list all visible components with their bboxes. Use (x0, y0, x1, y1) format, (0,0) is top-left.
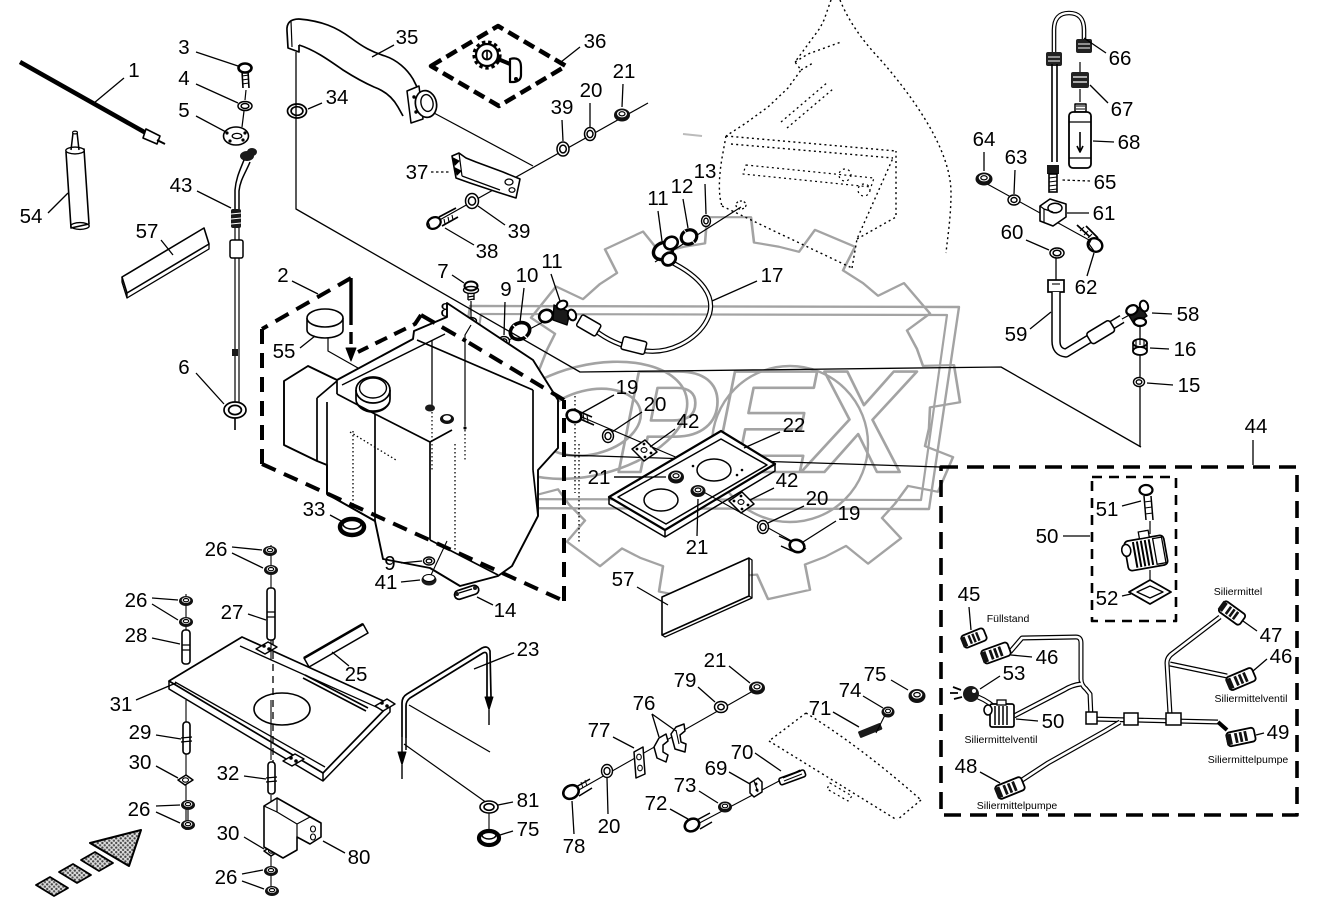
column B line (270, 545, 272, 660)
svg-text:21: 21 (613, 60, 636, 83)
washer 30 B (264, 846, 279, 856)
svg-text:70: 70 (731, 741, 754, 764)
leader line (697, 499, 698, 536)
leader line (196, 116, 226, 132)
svg-text:57: 57 (136, 220, 159, 243)
leader line (622, 84, 623, 107)
svg-text:26: 26 (215, 866, 238, 889)
svg-text:60: 60 (1001, 221, 1024, 244)
washer 30 (178, 775, 193, 785)
leader line (232, 553, 263, 568)
svg-text:74: 74 (839, 679, 862, 702)
leader line (803, 521, 836, 542)
axis 9-11 (492, 312, 562, 349)
nut 26 B2 (264, 565, 278, 575)
leader line (1011, 655, 1032, 657)
leader line (614, 476, 666, 478)
svg-text:39: 39 (508, 220, 531, 243)
watermark gear (504, 217, 960, 600)
svg-text:54: 54 (20, 205, 43, 228)
part 36 small tab (498, 59, 510, 64)
leader line (156, 735, 181, 739)
svg-text:33: 33 (303, 498, 326, 521)
ring 6 (224, 402, 246, 418)
nut 26 A1 (179, 596, 193, 606)
axis 42-19 right (700, 490, 806, 549)
washer 20 (585, 128, 596, 141)
harness wire 46-junction (1010, 637, 1091, 717)
cap 55 leader to neck (328, 338, 358, 368)
leader line (589, 103, 591, 127)
nut 75 right (909, 689, 926, 703)
leader line (196, 373, 224, 404)
alignment line tray to box 44 (565, 455, 941, 467)
machine tank (dotted) (726, 136, 896, 151)
nut 75 (479, 831, 499, 845)
leader line (196, 52, 238, 66)
pin 27 (267, 588, 275, 640)
svg-text:29: 29 (129, 721, 152, 744)
washer 8 (466, 318, 477, 325)
leader line (152, 598, 178, 600)
ring 13 (702, 216, 711, 227)
svg-text:19: 19 (616, 376, 639, 399)
bolt 3 (239, 64, 252, 73)
svg-text:42: 42 (677, 410, 700, 433)
svg-text:20: 20 (598, 815, 621, 838)
seal 52 (1149, 570, 1151, 581)
harness wire to 47 (1167, 617, 1220, 714)
pin 28 (182, 630, 190, 664)
cap 55 (307, 318, 343, 338)
svg-text:50: 50 (1042, 710, 1065, 733)
leader line (612, 412, 642, 432)
leader line (652, 714, 659, 737)
svg-text:Siliermittelventil: Siliermittelventil (1215, 693, 1288, 705)
axis frame to 81 (404, 744, 487, 803)
leader line (712, 281, 757, 301)
leader line (244, 776, 266, 779)
column A line (185, 594, 187, 664)
svg-text:10: 10 (516, 264, 539, 287)
svg-text:21: 21 (588, 466, 611, 489)
nut 26 A3 (181, 800, 195, 810)
svg-text:77: 77 (588, 719, 611, 742)
svg-text:11: 11 (647, 187, 668, 210)
part 57 panel right (662, 558, 749, 635)
bolt 78 (561, 783, 581, 802)
svg-text:9: 9 (500, 278, 511, 301)
nut 21 right (691, 485, 706, 497)
plate 31 top tab (256, 642, 277, 654)
leader line (729, 666, 750, 683)
pin 14 (453, 584, 480, 600)
leader line (1243, 621, 1257, 631)
bolt 7 (465, 282, 478, 291)
fitting 58 (1139, 325, 1141, 447)
ring 60 (1050, 248, 1064, 258)
svg-text:66: 66 (1109, 47, 1132, 70)
part 36 knob (476, 44, 498, 66)
svg-text:49: 49 (1267, 721, 1290, 744)
tank top mounting nuts (425, 405, 435, 412)
svg-text:46: 46 (1270, 645, 1293, 668)
leader line (983, 152, 985, 171)
connector 48 (993, 776, 1025, 800)
svg-text:13: 13 (694, 160, 717, 183)
leader line (1016, 719, 1038, 721)
frame 23 panel edge (409, 705, 490, 752)
svg-text:Siliermittelpumpe: Siliermittelpumpe (977, 800, 1058, 812)
leader line (698, 687, 715, 702)
leader line (1084, 38, 1106, 53)
leader line (729, 772, 750, 784)
svg-text:67: 67 (1111, 98, 1134, 121)
leader line (833, 712, 859, 727)
leader line (401, 561, 422, 563)
ring 34 (288, 104, 307, 118)
svg-text:46: 46 (1036, 646, 1059, 669)
part 57 strip left (122, 228, 209, 293)
svg-text:15: 15 (1178, 374, 1201, 397)
leader line (1252, 440, 1254, 465)
svg-text:26: 26 (125, 589, 148, 612)
svg-text:50: 50 (1036, 525, 1059, 548)
svg-text:78: 78 (563, 835, 586, 858)
leader line (504, 302, 505, 335)
tank silhouette (284, 303, 558, 586)
leader line (156, 766, 178, 778)
leader line (1147, 383, 1173, 385)
svg-text:38: 38 (476, 240, 499, 263)
svg-text:21: 21 (686, 536, 709, 559)
washer 20 right (758, 521, 769, 534)
leader line (658, 211, 662, 241)
washer 39 lower (466, 194, 479, 209)
leader line (980, 772, 1000, 783)
leader line (613, 737, 634, 748)
ring 63 (1008, 195, 1020, 205)
leader line (156, 812, 180, 823)
part 43 white collar (230, 240, 243, 258)
leader line (292, 281, 318, 294)
long installation line pipe-tank-breather (296, 52, 1141, 447)
dashed box 44 (941, 467, 1297, 815)
pipe 66 nuts (1046, 52, 1062, 66)
frame 23 arrow tips (485, 697, 493, 710)
leader line (607, 778, 608, 814)
svg-text:12: 12 (671, 175, 694, 198)
leader line (744, 432, 780, 448)
leader line (699, 791, 718, 803)
leader line (300, 336, 315, 348)
svg-text:43: 43 (170, 174, 193, 197)
axis line 11-13 (655, 207, 741, 262)
leader line (562, 120, 563, 141)
leader line (1063, 535, 1090, 537)
pin 32 (268, 762, 275, 794)
leader line (670, 809, 688, 819)
nut 26 A2 (179, 617, 193, 627)
plate 42 (632, 440, 657, 461)
leader line (980, 676, 1000, 689)
leader line (452, 275, 464, 283)
svg-text:26: 26 (205, 538, 228, 561)
tank internal edges (317, 381, 337, 461)
part 54 cartridge tube (66, 149, 89, 228)
nut 26 B3 (264, 866, 278, 876)
harness wire to 46 right (1170, 664, 1227, 676)
bolt 19 (565, 408, 583, 424)
bolt 51 (1140, 485, 1153, 495)
svg-text:68: 68 (1118, 131, 1141, 154)
fitting 16 (1133, 339, 1147, 347)
leader line (572, 801, 574, 834)
part 1 cable tie (20, 62, 146, 133)
axis line 38-21 (436, 103, 648, 222)
dashed box 2 (262, 278, 351, 329)
leader line (152, 604, 178, 620)
leader line (1090, 85, 1108, 103)
svg-text:16: 16 (1174, 338, 1197, 361)
machine body outline (dotted) (840, 0, 951, 253)
leader line (551, 274, 560, 301)
svg-text:48: 48 (955, 755, 978, 778)
leader line (498, 802, 513, 805)
svg-text:58: 58 (1177, 303, 1200, 326)
nut 64 (976, 173, 993, 186)
leader line (474, 653, 514, 669)
leader line (1067, 212, 1089, 214)
svg-text:5: 5 (178, 99, 189, 122)
leader line (1026, 240, 1049, 250)
svg-text:Siliermittelpumpe: Siliermittelpumpe (1208, 754, 1289, 766)
leader line (48, 193, 68, 213)
svg-text:Siliermittel: Siliermittel (1214, 586, 1262, 598)
leader line (156, 805, 180, 806)
strip 25 (304, 624, 368, 667)
leader line (152, 638, 180, 644)
fitting 12 (679, 227, 700, 247)
svg-text:63: 63 (1005, 146, 1028, 169)
svg-text:79: 79 (674, 669, 697, 692)
bolt 38 (425, 215, 443, 231)
leader line (652, 714, 676, 731)
leader line (768, 506, 804, 523)
harness trunk (1091, 719, 1218, 722)
hose 59 (1055, 258, 1057, 281)
part 43 rod (235, 228, 239, 240)
hose 59 sleeve (1086, 320, 1116, 345)
machine tank screw marks (dotted) (839, 169, 851, 181)
svg-text:41: 41 (375, 571, 398, 594)
leader line (455, 315, 465, 319)
watermark card inner border (455, 314, 947, 500)
tank notch vertical (431, 340, 433, 406)
svg-text:23: 23 (517, 638, 540, 661)
leader flange to bracket 37 (434, 113, 533, 166)
leader line (1087, 253, 1094, 276)
washer 8 leader over tank (465, 325, 471, 426)
elbow 11 (537, 308, 555, 325)
pin 71/74 (858, 723, 883, 738)
svg-text:21: 21 (704, 649, 727, 672)
leader line (1256, 733, 1264, 735)
plug 53 (963, 686, 979, 702)
connector 47 (1217, 600, 1246, 626)
tray 22 (609, 431, 775, 530)
tank dotted seams (350, 432, 396, 460)
plate 31 hole (254, 693, 310, 725)
svg-text:75: 75 (864, 663, 887, 686)
leader line (755, 753, 781, 771)
bolt 62 (1085, 236, 1104, 255)
leader line (500, 831, 513, 835)
svg-text:76: 76 (633, 692, 656, 715)
leader line (1030, 312, 1051, 329)
svg-text:47: 47 (1260, 624, 1283, 647)
leader line (637, 587, 668, 605)
washer 39 upper (557, 142, 569, 156)
leader line (308, 103, 322, 109)
svg-text:20: 20 (644, 393, 667, 416)
svg-text:31: 31 (110, 693, 133, 716)
leader line (477, 597, 493, 605)
svg-text:30: 30 (129, 751, 152, 774)
washer 20 bottom (602, 765, 613, 778)
watermark letters PEX (616, 340, 917, 504)
tray hole B (644, 489, 678, 511)
box 2 vertical with arrow (349, 278, 352, 325)
svg-text:14: 14 (494, 599, 517, 622)
connector 49 stub (1218, 722, 1227, 730)
svg-text:65: 65 (1094, 171, 1117, 194)
fitting 11 (650, 239, 675, 263)
gray mark (683, 134, 702, 136)
leader line (1253, 659, 1267, 671)
ring 79 (715, 702, 728, 713)
leader line (197, 191, 231, 208)
svg-text:52: 52 (1096, 587, 1119, 610)
leader line (332, 652, 349, 666)
leader line (705, 184, 706, 214)
nut 21 bottom (749, 682, 765, 695)
svg-text:62: 62 (1075, 276, 1098, 299)
leader line (242, 881, 264, 889)
leader line (401, 580, 420, 582)
leader line (891, 680, 908, 690)
nut 26 B4 (265, 886, 279, 896)
svg-text:3: 3 (178, 36, 189, 59)
washer 4 (238, 102, 252, 111)
svg-text:20: 20 (580, 79, 603, 102)
svg-text:4: 4 (178, 67, 189, 90)
svg-text:80: 80 (348, 846, 371, 869)
hose 17 (596, 261, 711, 351)
part 36 dashed box (431, 26, 566, 106)
disc 5 (224, 127, 249, 145)
svg-text:34: 34 (326, 86, 349, 109)
nut 10 (508, 320, 533, 343)
svg-text:73: 73 (674, 774, 697, 797)
leader line (580, 395, 614, 414)
svg-text:30: 30 (217, 822, 240, 845)
part 35 flange (407, 86, 423, 123)
part 43 dipstick fitting (240, 151, 254, 161)
svg-text:26: 26 (128, 798, 151, 821)
svg-text:64: 64 (973, 128, 996, 151)
leader line (1150, 348, 1169, 349)
nut 73 (718, 802, 732, 813)
connector 49 (1225, 727, 1256, 747)
harness wire 48-junction (1019, 722, 1120, 782)
cap 41 (422, 575, 437, 586)
svg-text:72: 72 (645, 792, 668, 815)
plate 31 centerline (272, 640, 274, 790)
svg-text:81: 81 (517, 789, 540, 812)
axis 19-21 (570, 412, 706, 470)
ring 15 (1134, 378, 1145, 387)
plate 31 right tab (375, 699, 395, 711)
nut 26 B1 (263, 546, 277, 556)
plate 31 (169, 637, 390, 773)
svg-text:Siliermittelventil: Siliermittelventil (965, 734, 1038, 746)
harness wire 53-solenoid (978, 697, 997, 710)
svg-text:59: 59 (1005, 323, 1028, 346)
ring 9 (499, 337, 510, 346)
leader line (196, 84, 238, 103)
leader line (478, 206, 505, 225)
svg-text:53: 53 (1003, 662, 1026, 685)
pin 29 (183, 722, 190, 754)
bracket 77 (634, 747, 645, 778)
bolt 72 (683, 816, 702, 834)
svg-text:37: 37 (406, 161, 429, 184)
washer 20 (603, 430, 614, 443)
svg-text:71: 71 (809, 697, 832, 720)
svg-text:45: 45 (958, 583, 981, 606)
axis 64-62 (980, 180, 1100, 246)
leader line (1152, 313, 1172, 314)
svg-text:Füllstand: Füllstand (987, 613, 1030, 625)
connector 46 right (1224, 667, 1256, 691)
plate 31 bottom tab (283, 754, 304, 766)
svg-text:44: 44 (1245, 415, 1268, 438)
ring 74 (882, 707, 895, 718)
plate 42 right (729, 492, 754, 513)
leader line (244, 837, 264, 849)
hose 17 end nut (660, 250, 678, 268)
bracket 61 (1040, 199, 1066, 226)
nut 21 (614, 109, 630, 122)
stud 65 (1047, 165, 1059, 174)
svg-text:2: 2 (277, 264, 288, 287)
connector 46 left (980, 642, 1012, 665)
axis 72-70 (690, 770, 800, 828)
tank top face front edge (behind ring) (342, 334, 445, 385)
svg-text:11: 11 (541, 250, 562, 273)
watermark card outer border (440, 306, 959, 509)
leader line (1122, 501, 1141, 506)
leader line (683, 199, 688, 228)
watermark gear hub circle (712, 366, 868, 522)
leader line (650, 429, 675, 447)
svg-text:27: 27 (221, 601, 244, 624)
svg-text:69: 69 (705, 757, 728, 780)
pipe 66 down tube (1052, 64, 1057, 162)
svg-text:39: 39 (551, 96, 574, 119)
leader line (248, 614, 266, 620)
